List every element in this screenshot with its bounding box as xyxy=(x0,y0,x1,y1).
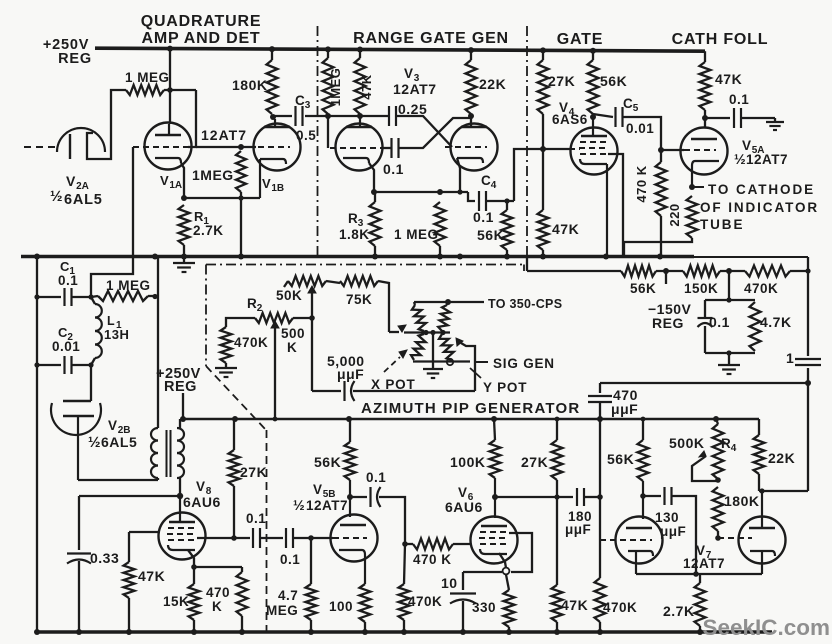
wire 180K top lead xyxy=(271,48,273,60)
V4 grid entry (dashed inside) xyxy=(570,148,580,150)
resistor 180K (V7) xyxy=(713,487,724,531)
wire pot network mid row xyxy=(404,331,450,333)
wire cathode bus (V1A, V1B, R1) xyxy=(184,197,260,199)
wire 56K to 150K xyxy=(656,270,683,272)
V4 cathode lead xyxy=(606,164,608,256)
svg-text:56K: 56K xyxy=(477,227,504,243)
node row right end xyxy=(805,268,810,273)
svg-text:0.01: 0.01 xyxy=(52,339,80,354)
svg-text:220: 220 xyxy=(667,203,682,226)
label R4 xyxy=(721,436,737,454)
resistor 470K (R2 to ground) xyxy=(221,327,232,363)
node 4.7MEG / V5B grid xyxy=(308,535,314,541)
svg-text:MEG: MEG xyxy=(266,603,298,618)
svg-text:47K: 47K xyxy=(715,71,742,87)
wire 47K top lead xyxy=(359,50,361,59)
svg-text:1B: 1B xyxy=(271,183,284,194)
svg-text:4.7K: 4.7K xyxy=(760,314,792,330)
label 22K xyxy=(479,76,506,92)
V2A cathode bar xyxy=(69,134,71,159)
svg-text:2A: 2A xyxy=(76,181,89,192)
resistor 470K (-150V row) xyxy=(745,266,790,277)
label V5A xyxy=(742,138,765,156)
svg-text:47K: 47K xyxy=(359,74,374,99)
wire 100 bottom lead xyxy=(364,622,366,632)
inductor L1 13H xyxy=(91,297,102,365)
wire grid bus V1A to V1B xyxy=(196,146,256,148)
label 470K (R2) xyxy=(234,335,268,350)
wire rail corner into 22K xyxy=(758,419,760,435)
node screen / coupling xyxy=(231,535,237,541)
transformer secondary winding (right) xyxy=(177,428,184,478)
wire 330 leads xyxy=(506,575,509,633)
wire 180uuF to V7 grid line xyxy=(585,496,601,498)
svg-text:AZIMUTH PIP GENERATOR: AZIMUTH PIP GENERATOR xyxy=(361,400,580,417)
wire input signal (dashed) to V2A xyxy=(24,146,57,148)
label V6 xyxy=(458,485,474,503)
svg-text:2.7K: 2.7K xyxy=(663,603,695,619)
svg-text:μμF: μμF xyxy=(337,366,364,382)
svg-text:Y POT: Y POT xyxy=(483,380,527,395)
svg-text:500: 500 xyxy=(281,326,305,341)
node grid bus / 1MEG grid resistor xyxy=(238,144,244,150)
node -150V tap xyxy=(663,268,669,284)
node divider tap xyxy=(554,494,559,499)
label 500K (R4) xyxy=(669,435,704,451)
wire 470K-v leads xyxy=(404,544,405,632)
wire left column vertical xyxy=(36,257,38,633)
wire cathode node to 10 cap xyxy=(463,571,502,573)
svg-text:1: 1 xyxy=(786,350,794,366)
wire 470K bottom lead xyxy=(599,622,601,632)
label 470K (rotated, V5A grid) xyxy=(634,165,649,202)
svg-text:12AT7: 12AT7 xyxy=(201,127,247,143)
wire +250V label stub xyxy=(182,393,184,419)
tube V7a envelope xyxy=(616,517,663,564)
svg-text:12AT7: 12AT7 xyxy=(393,81,436,97)
label TO 350-CPS xyxy=(488,297,562,311)
tube V4 envelope xyxy=(571,128,618,175)
ground symbol below R1 xyxy=(173,258,195,272)
wire 22K bottom to right edge riser xyxy=(759,383,808,491)
label 75K xyxy=(346,292,372,307)
wire bypass cap drop xyxy=(78,496,80,550)
wire cathode bus jog to C4 xyxy=(468,192,475,201)
wire cathode to indicator tap xyxy=(692,186,704,188)
label V2A xyxy=(66,173,89,192)
label 6AU6 (V8) xyxy=(183,494,221,510)
resistor 330 (V6 cathode) xyxy=(504,590,515,627)
wire 47K drop xyxy=(128,532,130,562)
watermark SeekIC.com xyxy=(702,615,830,640)
label 12AT7 (V7) xyxy=(683,556,725,571)
svg-text:1 MEG: 1 MEG xyxy=(106,278,151,293)
resistor 75K xyxy=(340,276,378,286)
wire right edge vertical (ground to feedback line) xyxy=(807,257,809,383)
label 56K (C4 load) xyxy=(477,227,504,243)
tube V1A envelope xyxy=(145,123,192,170)
svg-text:0.1: 0.1 xyxy=(280,552,300,567)
node 470K-h junction xyxy=(402,541,408,547)
wire C4 right to 56K and gate feed xyxy=(487,200,515,202)
label 0.25 xyxy=(398,101,427,117)
label 56K (gate) xyxy=(600,73,627,89)
label SIG GEN xyxy=(493,356,555,371)
capacitor 0.1 (second coupling) xyxy=(286,528,293,548)
label 0.1 (cross coupling) xyxy=(383,161,404,177)
svg-text:C: C xyxy=(623,96,633,111)
wire 0.1 out to 470K-h node xyxy=(379,497,405,544)
tube V2B envelope (half 6AL5) xyxy=(51,403,101,435)
svg-text:56K: 56K xyxy=(314,454,341,470)
tube V3b envelope xyxy=(451,124,498,171)
label 1 MEG (tank) xyxy=(106,278,151,293)
resistor 4.7 MEG (V5B grid) xyxy=(306,584,317,620)
label 12AT7 (V1) xyxy=(201,127,247,143)
wire 2.7K leads xyxy=(699,574,701,632)
V1A cathode and lead xyxy=(155,158,184,198)
svg-text:TO 350-CPS: TO 350-CPS xyxy=(488,297,562,311)
wire 0.1 to V3b plate (diagonal) xyxy=(399,116,471,148)
svg-text:27K: 27K xyxy=(548,73,575,89)
label 130 uuF (stacked) xyxy=(655,510,686,539)
section title QUADRATURE AMP AND DET xyxy=(141,13,262,47)
resistor 470 K (horizontal, V6 grid) xyxy=(413,539,453,550)
svg-text:2.7K: 2.7K xyxy=(193,223,224,238)
node 1MEG / C3 / V3a grid drop xyxy=(325,113,331,119)
svg-text:180K: 180K xyxy=(724,493,759,509)
svg-text:½: ½ xyxy=(88,434,101,451)
node SIG GEN terminal (open circle) xyxy=(447,359,453,365)
wire 0.33 to bottom rail xyxy=(78,561,80,632)
capacitor C5 0.01 xyxy=(616,107,623,127)
label 0.1 (second) xyxy=(280,552,300,567)
svg-text:GATE: GATE xyxy=(557,31,603,48)
capacitor 470 uuF xyxy=(588,396,612,402)
ground symbol (pot network) xyxy=(423,369,443,378)
V5B cathode and lead xyxy=(339,550,365,584)
svg-text:6AS6: 6AS6 xyxy=(552,112,588,127)
wire 470K row leads xyxy=(720,270,808,272)
resistor 56K (V5B plate) xyxy=(345,442,356,480)
node V7a plate / 130uuF xyxy=(640,493,646,499)
wire 470K leads xyxy=(660,149,662,256)
wire +250V feed rail (pip generator) xyxy=(183,418,759,420)
V5B grid (dashed) xyxy=(333,537,367,539)
V7a grid (dashed) xyxy=(600,539,652,541)
label 500 K (stacked) xyxy=(281,326,305,355)
label 1/2 6AL5 (V2B) xyxy=(88,434,137,451)
V3a plate bar xyxy=(346,116,372,127)
label 180K (V7) xyxy=(724,493,759,509)
svg-text:REG: REG xyxy=(652,315,684,331)
node 1MEG / V1A plate vertical xyxy=(167,87,173,93)
node V5A plate / 0.1 bypass xyxy=(702,115,708,121)
wire 4.7MEG leads xyxy=(310,538,312,632)
svg-text:V: V xyxy=(404,66,414,81)
V3b plate bar xyxy=(461,126,487,128)
wire -150 row left segment xyxy=(527,270,621,272)
label 1 MEG (cathode) xyxy=(394,227,439,242)
wire V5B plate lead xyxy=(349,480,351,517)
label V4 xyxy=(559,100,575,118)
label 15K xyxy=(163,594,189,609)
node cathode bus / 1MEG xyxy=(437,189,443,195)
resistor 4.7K (-150V filter) xyxy=(750,302,761,351)
label 0.5 (C3 value) xyxy=(296,128,316,143)
X POT callout arrow (dashed) xyxy=(384,350,407,372)
node V8 cathode xyxy=(191,564,197,570)
svg-text:4: 4 xyxy=(491,180,497,191)
wire 27K top lead xyxy=(542,50,544,60)
capacitor 10 uuF xyxy=(450,594,476,604)
resistor 15K (V8 cathode) xyxy=(189,567,200,620)
node 150K/470K junction xyxy=(726,268,732,274)
V1A plate bar and lead xyxy=(155,124,181,135)
wire 47K bottom lead xyxy=(128,598,130,632)
label 0.1 (-150V filter) xyxy=(709,314,730,330)
svg-text:4: 4 xyxy=(731,443,737,454)
wire C2 right lead xyxy=(72,364,92,366)
label +250V REG (top left) xyxy=(43,37,92,67)
wire 47K bottom lead xyxy=(556,622,558,632)
label C2 xyxy=(58,325,73,343)
label 470 K (horizontal) xyxy=(413,552,452,567)
resistor 27K (V8 screen) xyxy=(229,450,240,486)
label 1 MEG (feedback resistor) xyxy=(125,70,170,85)
wire plate to 0.1 bypass cap xyxy=(705,117,730,119)
svg-text:V: V xyxy=(313,482,323,497)
label 100K xyxy=(450,454,485,470)
svg-text:1MEG: 1MEG xyxy=(328,68,343,107)
wire V3a grid to 0.1 cap xyxy=(381,147,391,149)
wire V7a grid line continues to 470K xyxy=(599,540,601,578)
label 220 (rotated) xyxy=(667,203,682,226)
node 22K / V7b plate xyxy=(759,488,764,493)
svg-text:½: ½ xyxy=(293,497,305,513)
wire 180K to V7b grid xyxy=(717,531,719,538)
wire secondary bottom to V8 plate node xyxy=(179,478,181,496)
V5A grid (dashed) xyxy=(684,149,716,151)
V8 cathode lead xyxy=(188,550,194,567)
node C2 / L1 / V2B plate xyxy=(88,362,93,367)
wire V2B cathode to transformer primary xyxy=(78,478,158,480)
wire 1MEG bottom to ground rail xyxy=(240,192,242,256)
label 1/2 12AT7 (V5A) xyxy=(734,151,788,167)
svg-text:V: V xyxy=(160,173,169,188)
svg-text:100: 100 xyxy=(329,599,353,614)
svg-text:REG: REG xyxy=(164,379,197,395)
wire R1 bottom to ground rail xyxy=(183,245,185,256)
svg-text:μμF: μμF xyxy=(611,401,638,417)
label AZIMUTH PIP GENERATOR xyxy=(361,400,580,417)
node V4 plate / C5 xyxy=(590,114,596,120)
label 1/2 6AL5 (V2A) xyxy=(50,188,103,208)
resistor 100 (V5B cathode) xyxy=(360,584,371,622)
label 47K (cath foll) xyxy=(715,71,742,87)
V1B cathode and lead xyxy=(260,159,286,198)
wire V8 screen/output xyxy=(197,537,250,539)
svg-text:X POT: X POT xyxy=(371,377,416,392)
wire 0.25 to V3b grid (diagonal) xyxy=(397,116,453,147)
svg-text:REG: REG xyxy=(58,51,92,67)
svg-text:K: K xyxy=(287,340,297,355)
svg-text:0.01: 0.01 xyxy=(626,121,654,136)
node C4 / 56K xyxy=(504,198,509,203)
wire V8 plate lead xyxy=(179,496,181,522)
svg-text:180K: 180K xyxy=(232,77,267,93)
capacitor 0.1 (-150V filter) xyxy=(698,300,713,353)
svg-text:AMP AND DET: AMP AND DET xyxy=(141,30,260,47)
svg-text:47K: 47K xyxy=(561,597,588,613)
node cathode bus junctions xyxy=(181,195,244,201)
V7a cathode and lead xyxy=(628,551,653,574)
wire feedback top line xyxy=(600,382,808,384)
svg-text:V: V xyxy=(66,173,76,189)
label 6AS6 xyxy=(552,112,588,127)
svg-text:3: 3 xyxy=(305,100,311,111)
capacitor 5,000 uuF xyxy=(345,381,355,401)
label 56K (-150V row) xyxy=(630,281,656,296)
svg-text:47K: 47K xyxy=(552,221,579,237)
svg-text:130: 130 xyxy=(655,510,679,525)
node top rail / TO 350 tap xyxy=(445,299,451,305)
wire 50K to 75K xyxy=(326,281,340,283)
node cathode bus / R3 xyxy=(371,189,377,195)
capacitor 1 (right edge) xyxy=(795,359,821,365)
svg-text:0.1: 0.1 xyxy=(366,470,386,485)
label SIG GEN dash xyxy=(476,361,488,363)
wire 50K left stub xyxy=(284,281,288,287)
wire 47K bottom to V5A plate xyxy=(704,110,706,128)
svg-text:470K: 470K xyxy=(408,594,442,609)
wire mid to ground xyxy=(432,333,434,369)
capacitor 0.25 (cross-coupling) xyxy=(389,106,396,126)
label 27K (V6) xyxy=(521,454,548,470)
label 1 (cap value) xyxy=(786,350,794,366)
label 5,000 uuF (stacked) xyxy=(327,353,365,382)
wire 1MEG right lead to +250 column xyxy=(148,294,158,299)
svg-text:μμF: μμF xyxy=(565,522,591,537)
resistor R1 2.7K (V1 cathode) xyxy=(179,205,190,245)
label 47K (V8 grid) xyxy=(138,568,165,584)
wire C2 left lead xyxy=(34,362,61,367)
Y POT wiper arrow xyxy=(456,338,475,391)
node V6 cathode (open circle) xyxy=(503,568,510,575)
wire 27K bottom to screen node xyxy=(233,486,235,538)
label 180 uuF (stacked) xyxy=(565,509,592,537)
node R4 bottom / 180K xyxy=(715,477,721,483)
svg-text:1A: 1A xyxy=(169,180,182,191)
capacitor C4 0.1 xyxy=(479,191,486,211)
svg-text:12AT7: 12AT7 xyxy=(306,498,348,513)
svg-text:56K: 56K xyxy=(607,451,634,467)
label 180K xyxy=(232,77,267,93)
tube V6 envelope xyxy=(471,517,518,564)
svg-text:0.1: 0.1 xyxy=(246,511,266,526)
node cathode bus / 2.7K xyxy=(693,571,699,577)
capacitor 0.1 (cross-coupling lower) xyxy=(392,138,399,158)
wire V6 plate lead xyxy=(494,478,496,518)
label 47K (V6 divider) xyxy=(561,597,588,613)
label X POT xyxy=(371,377,416,392)
label V2B xyxy=(108,418,131,436)
label R1 xyxy=(194,209,209,227)
svg-text:75K: 75K xyxy=(346,292,372,307)
node 180uuF / V7a grid line xyxy=(597,494,603,500)
label 470K (-150V row) xyxy=(744,281,778,296)
wire bottom ground rail (heavy) xyxy=(35,630,772,634)
resistor upper-left (pot network) xyxy=(412,302,426,331)
label 1MEG (rotated) xyxy=(328,68,343,107)
tube V3a envelope xyxy=(336,124,383,171)
ground symbol (470K) xyxy=(215,363,237,377)
resistor 47K (V6 divider bottom) xyxy=(552,585,563,622)
wire 5000uuF to Y wiper xyxy=(353,390,475,392)
label Y POT xyxy=(483,380,527,395)
wire V4 plate node to C5 xyxy=(593,114,613,117)
svg-text:C: C xyxy=(481,173,491,188)
wire 1 MEG bottom lead xyxy=(439,246,441,256)
V2A plate bracket and lead to 1 MEG xyxy=(87,90,126,159)
label 4.7K xyxy=(760,314,792,330)
label 150K xyxy=(684,281,718,296)
section title RANGE GATE GEN xyxy=(353,30,509,47)
label 4.7 MEG (stacked) xyxy=(266,588,298,618)
resistor 470K (V5A grid) xyxy=(656,162,667,216)
wire V8 plate bypass run xyxy=(79,495,180,497)
node V5A cathode / 220 xyxy=(689,184,695,190)
node V3b plate / 22K / coupling xyxy=(468,113,474,119)
svg-text:12AT7: 12AT7 xyxy=(746,152,788,167)
wire R2 right to 50K wiper xyxy=(293,317,312,319)
svg-text:1MEG: 1MEG xyxy=(192,167,234,183)
resistor 1MEG (V3a grid) xyxy=(323,58,334,114)
resistor 47K (V4 divider bottom) xyxy=(538,210,549,250)
label 0.01 (C2) xyxy=(52,339,80,354)
divider between range gate and gate sections xyxy=(526,26,528,258)
wire cathode to 470K xyxy=(194,566,242,568)
label 1/2 12AT7 (V5B) xyxy=(293,497,348,513)
svg-text:56K: 56K xyxy=(600,73,627,89)
capacitor 0.1 (plate bypass) xyxy=(734,108,741,128)
wire 22K top lead xyxy=(470,50,472,60)
V4 screen tap to ground rail xyxy=(608,154,623,256)
resistor 470K (V7a grid) xyxy=(595,578,606,622)
label 2.7K xyxy=(663,603,695,619)
wire C3 right to range-gate grid node xyxy=(305,115,328,117)
50K wiper arrow xyxy=(308,286,316,391)
V7b grid (dashed) xyxy=(718,537,752,539)
node V1B plate / 180K / C3 xyxy=(270,114,276,120)
label 0.1 (V5B out) xyxy=(366,470,386,485)
svg-text:470: 470 xyxy=(206,585,230,600)
label 50K xyxy=(276,288,302,303)
V3b grid (dashed) xyxy=(445,146,487,148)
capacitor C2 0.01 xyxy=(65,356,72,374)
svg-text:C: C xyxy=(295,93,305,108)
resistor 2.7K (V7 cathode) xyxy=(695,583,706,626)
label 22K (V7b) xyxy=(768,450,795,466)
svg-text:V: V xyxy=(458,485,468,500)
wire 27K top lead xyxy=(556,419,558,440)
label V7 xyxy=(696,543,712,561)
svg-text:12AT7: 12AT7 xyxy=(683,556,725,571)
label 0.1 (bypass) xyxy=(729,92,749,107)
wire plate to 0.1 out cap xyxy=(350,496,367,498)
node cathode bus / V3b cathode xyxy=(457,189,462,194)
wire R2 left lead and corner xyxy=(226,318,255,327)
